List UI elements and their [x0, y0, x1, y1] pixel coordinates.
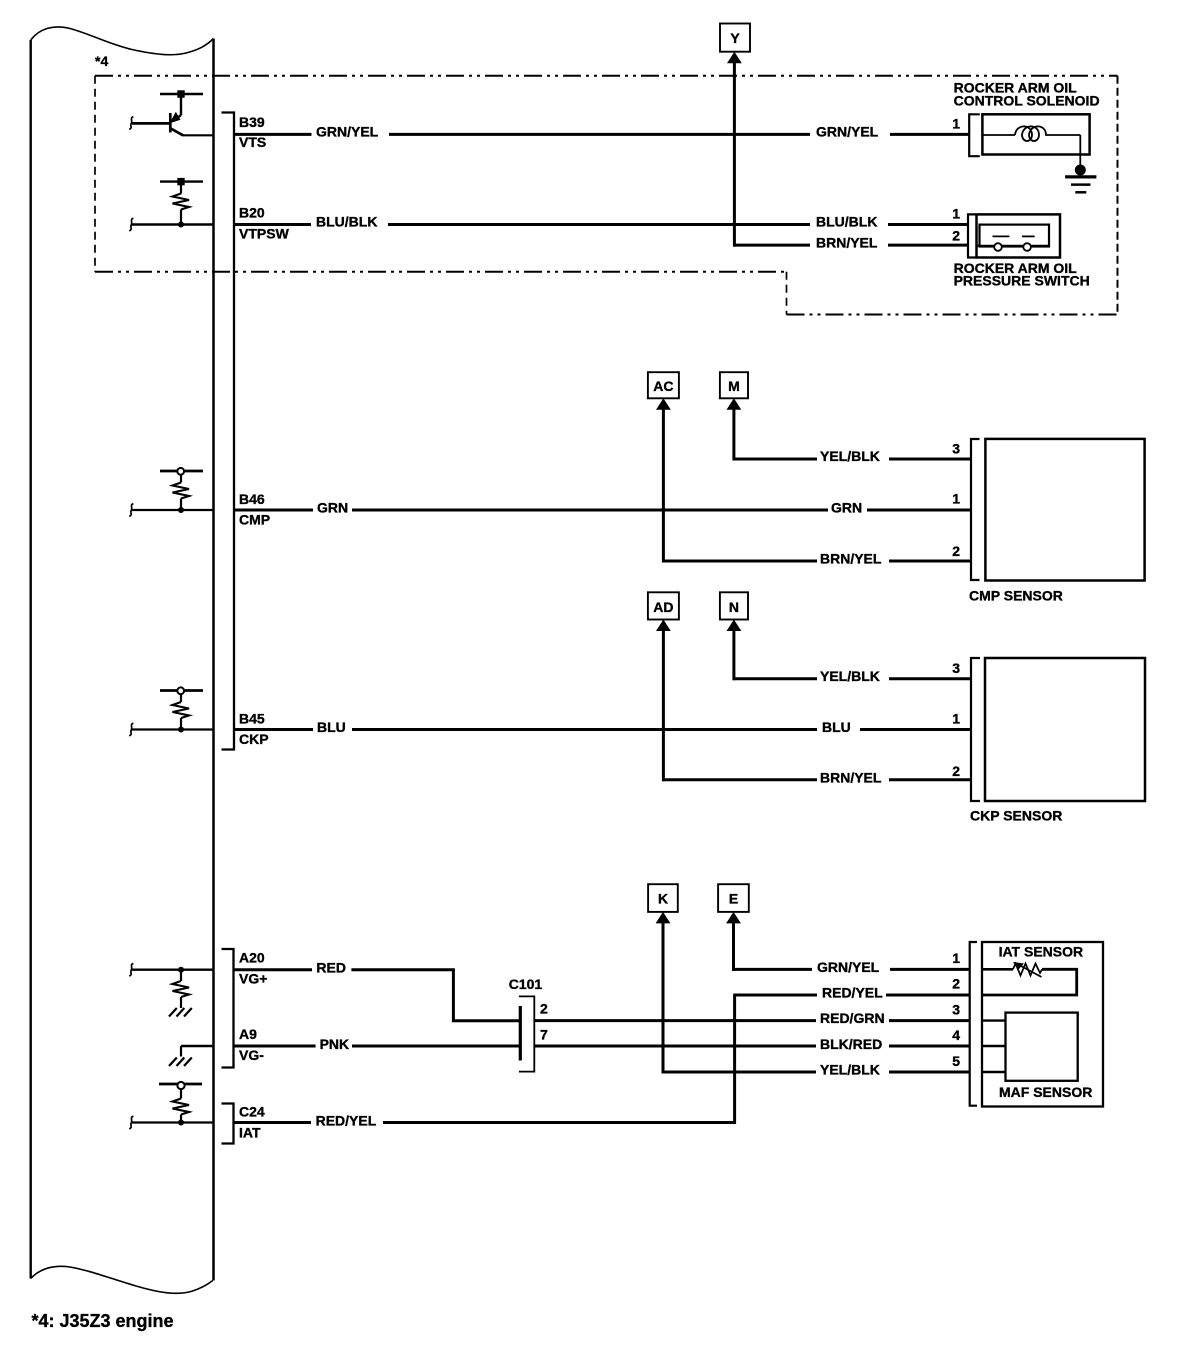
- svg-text:CKP: CKP: [239, 731, 269, 747]
- svg-text:1: 1: [952, 115, 960, 131]
- svg-text:2: 2: [540, 1001, 548, 1017]
- svg-text:GRN: GRN: [317, 500, 348, 516]
- svg-text:GRN/YEL: GRN/YEL: [817, 959, 880, 975]
- svg-text:B46: B46: [239, 491, 265, 507]
- svg-text:YEL/BLK: YEL/BLK: [820, 668, 880, 684]
- svg-text:BLU: BLU: [317, 719, 346, 735]
- svg-text:BRN/YEL: BRN/YEL: [820, 770, 882, 786]
- svg-text:2: 2: [952, 763, 960, 779]
- svg-text:2: 2: [952, 228, 960, 244]
- svg-text:A9: A9: [239, 1026, 257, 1042]
- svg-text:2: 2: [952, 543, 960, 559]
- svg-text:2: 2: [952, 976, 960, 992]
- svg-text:CMP: CMP: [239, 512, 270, 528]
- svg-text:VG+: VG+: [239, 971, 267, 987]
- svg-text:M: M: [728, 378, 740, 394]
- svg-text:RED/YEL: RED/YEL: [822, 985, 883, 1001]
- svg-text:N: N: [729, 599, 739, 615]
- svg-text:1: 1: [952, 950, 960, 966]
- svg-text:*4: J35Z3 engine: *4: J35Z3 engine: [32, 1311, 174, 1331]
- svg-text:1: 1: [952, 491, 960, 507]
- svg-text:BLU/BLK: BLU/BLK: [816, 214, 877, 230]
- svg-text:C101: C101: [509, 976, 543, 992]
- svg-text:AD: AD: [653, 599, 673, 615]
- svg-text:VG-: VG-: [239, 1047, 264, 1063]
- svg-text:VTPSW: VTPSW: [239, 226, 290, 242]
- svg-text:5: 5: [952, 1053, 960, 1069]
- svg-text:YEL/BLK: YEL/BLK: [820, 1062, 880, 1078]
- svg-text:CMP SENSOR: CMP SENSOR: [969, 588, 1063, 604]
- svg-text:Y: Y: [730, 30, 740, 46]
- svg-text:C24: C24: [239, 1104, 265, 1120]
- svg-text:*4: *4: [95, 53, 108, 69]
- svg-text:BRN/YEL: BRN/YEL: [820, 551, 882, 567]
- svg-text:VTS: VTS: [239, 134, 266, 150]
- svg-text:B39: B39: [239, 114, 265, 130]
- svg-text:IAT SENSOR: IAT SENSOR: [999, 944, 1084, 960]
- svg-text:3: 3: [952, 440, 960, 456]
- svg-text:7: 7: [540, 1027, 548, 1043]
- svg-text:BLU/BLK: BLU/BLK: [316, 214, 377, 230]
- svg-text:K: K: [658, 891, 668, 907]
- svg-text:A20: A20: [239, 950, 265, 966]
- svg-text:B45: B45: [239, 711, 265, 727]
- svg-text:CKP SENSOR: CKP SENSOR: [970, 808, 1062, 824]
- svg-text:AC: AC: [653, 378, 673, 394]
- svg-text:4: 4: [952, 1027, 960, 1043]
- svg-text:IAT: IAT: [239, 1125, 261, 1141]
- svg-text:BLU: BLU: [822, 719, 851, 735]
- svg-text:PRESSURE SWITCH: PRESSURE SWITCH: [954, 273, 1090, 289]
- svg-text:PNK: PNK: [320, 1036, 350, 1052]
- svg-text:BRN/YEL: BRN/YEL: [816, 235, 878, 251]
- svg-text:RED: RED: [316, 960, 346, 976]
- svg-text:GRN/YEL: GRN/YEL: [816, 124, 879, 140]
- svg-text:B20: B20: [239, 205, 265, 221]
- svg-text:CONTROL SOLENOID: CONTROL SOLENOID: [954, 93, 1100, 109]
- svg-text:GRN: GRN: [831, 500, 862, 516]
- svg-text:3: 3: [952, 1002, 960, 1018]
- svg-text:3: 3: [952, 660, 960, 676]
- svg-text:YEL/BLK: YEL/BLK: [820, 448, 880, 464]
- svg-text:MAF SENSOR: MAF SENSOR: [999, 1084, 1092, 1100]
- svg-text:RED/YEL: RED/YEL: [316, 1112, 377, 1128]
- svg-text:GRN/YEL: GRN/YEL: [316, 124, 379, 140]
- svg-text:1: 1: [952, 711, 960, 727]
- svg-text:1: 1: [952, 206, 960, 222]
- svg-text:BLK/RED: BLK/RED: [820, 1036, 882, 1052]
- svg-text:RED/GRN: RED/GRN: [820, 1010, 885, 1026]
- svg-text:E: E: [729, 891, 738, 907]
